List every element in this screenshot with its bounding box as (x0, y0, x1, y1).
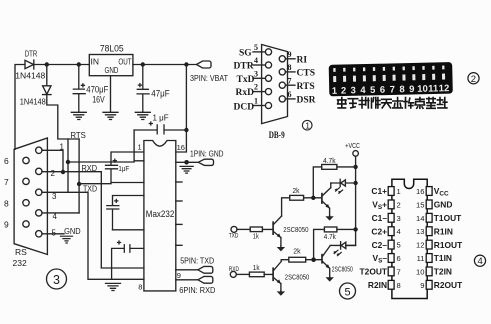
pin circle J1-8 (279, 69, 285, 75)
node C3 junction (184, 128, 188, 132)
svg-text:4.7k: 4.7k (324, 234, 336, 241)
ground arrow Q3 emitter (277, 291, 285, 296)
svg-text:16: 16 (177, 143, 185, 152)
wire VBAT rail (133, 64, 197, 66)
pin15 stub with ground (176, 161, 187, 163)
svg-text:7: 7 (4, 177, 9, 187)
svg-text:9: 9 (420, 281, 424, 290)
wire TXD row (79, 183, 111, 185)
svg-text:6: 6 (4, 156, 9, 166)
contact row upper (333, 68, 335, 72)
ground for DB9 pin5 (61, 236, 73, 243)
svg-text:RS: RS (15, 247, 27, 257)
svg-text:2: 2 (51, 169, 56, 178)
wire J1 pin5 stub (253, 51, 265, 53)
svg-text:6: 6 (380, 85, 386, 96)
wire drop to TXD row (78, 139, 80, 213)
pin circle J1-4 (265, 62, 271, 68)
wire pin4 row (42, 212, 79, 214)
svg-text:3: 3 (52, 192, 57, 201)
svg-text:R2IN: R2IN (368, 280, 387, 290)
svg-text:DTR: DTR (25, 49, 38, 58)
svg-text:78L05: 78L05 (100, 44, 124, 54)
wire pin4 loop C2 top (113, 196, 144, 206)
svg-text:T1OUT: T1OUT (434, 213, 462, 223)
svg-text:2SC8050: 2SC8050 (285, 272, 310, 281)
svg-text:4.7k: 4.7k (323, 158, 336, 165)
capacitor C5 470uF (73, 65, 85, 112)
svg-text:1k: 1k (253, 234, 259, 241)
node A 4.7k junction (353, 165, 357, 169)
svg-text:9: 9 (288, 50, 292, 59)
svg-text:8: 8 (138, 282, 142, 291)
circled number 4 (474, 255, 485, 267)
svg-text:5: 5 (254, 43, 258, 52)
pin circle J3-6 (23, 157, 29, 163)
pin circle J1-2 (265, 89, 271, 95)
circled number 3 (47, 269, 67, 289)
svg-text:7: 7 (288, 76, 292, 85)
wire pin9 row 6PIN RXD (176, 279, 198, 281)
pin boxes right 16-9 (426, 187, 432, 290)
connector tag 1PIN GND (187, 159, 214, 165)
node D base junction (311, 257, 316, 262)
svg-text:1: 1 (397, 187, 401, 196)
pin13 stub (176, 200, 182, 202)
svg-text:3: 3 (53, 273, 60, 287)
svg-text:2: 2 (471, 74, 476, 85)
diode D1 1N4148 (25, 60, 34, 69)
svg-text:1 μF: 1 μF (153, 114, 169, 123)
pin circle J3-7 (23, 178, 29, 184)
ground for 470uF (71, 112, 86, 119)
pin circle J3-4 (36, 210, 42, 216)
wire J1 pin7 stub (285, 84, 295, 86)
svg-text:2: 2 (397, 200, 401, 209)
node RXD junction (66, 160, 70, 164)
LED D4 (330, 242, 355, 256)
pin11 stub (176, 244, 182, 246)
diode D2 1N4148 vertical (43, 86, 51, 95)
resistor R6 2k (281, 257, 311, 262)
svg-text:9: 9 (4, 220, 9, 230)
LED D3 (331, 179, 356, 193)
svg-text:TxD: TxD (237, 75, 255, 85)
pin boxes left 1-8 (388, 187, 394, 290)
wire J1 pin9 stub (285, 58, 295, 60)
pin circle J3-2 (36, 168, 42, 174)
svg-text:+VCC: +VCC (345, 141, 360, 150)
connector tag 3PIN VBAT (197, 61, 212, 68)
wire J1 pin1 stub (253, 105, 265, 107)
svg-text:6: 6 (288, 90, 292, 99)
svg-text:1N4148: 1N4148 (15, 71, 45, 81)
svg-text:232: 232 (13, 258, 27, 268)
wire pin1 loop C1 top (111, 152, 144, 165)
svg-text:T1IN: T1IN (434, 253, 452, 263)
photo serial connector item 2 (329, 62, 453, 97)
svg-text:CTS: CTS (297, 69, 315, 79)
svg-text:5: 5 (345, 286, 351, 298)
capacitor C4 (112, 241, 144, 279)
svg-text:IN: IN (91, 57, 100, 67)
pin circle J3-1 (36, 147, 42, 153)
ground arrow Q2 emitter (325, 216, 333, 221)
terminal VCC circle (353, 151, 359, 157)
svg-text:DCD: DCD (234, 102, 255, 112)
connector J3 DB9 female RS232 body (14, 138, 47, 255)
wire J1 pin3 stub (253, 77, 265, 79)
node VCC-4.7k2 junction (353, 227, 357, 231)
pin circle J1-1 (265, 102, 271, 108)
transistor Q1 (262, 216, 281, 246)
circled number 5 (340, 283, 356, 299)
svg-text:8: 8 (397, 281, 401, 290)
svg-text:C2–: C2– (372, 240, 388, 250)
wire pin2 row to v5 (42, 172, 144, 268)
svg-text:SG: SG (239, 48, 252, 58)
pin labels right (434, 186, 463, 290)
svg-text:RxD: RxD (236, 88, 255, 98)
node pin15 junction (184, 160, 189, 165)
svg-text:VS+: VS+ (372, 200, 387, 211)
wire C2 bottom to pin5 (113, 229, 144, 231)
wire 78L05 GND pin (110, 76, 112, 112)
svg-text:9: 9 (409, 84, 415, 95)
node TXD junction (77, 182, 81, 186)
svg-text:DTR: DTR (234, 62, 254, 72)
svg-text:15: 15 (416, 200, 424, 209)
node pin1-pin2row junction (61, 170, 65, 174)
wire RXD row (68, 161, 134, 163)
svg-text:13: 13 (416, 227, 424, 236)
svg-text:GND: GND (105, 65, 119, 75)
wire C1 bottom to pin3 (111, 182, 144, 184)
svg-text:DB-9: DB-9 (269, 131, 285, 141)
svg-text:1: 1 (254, 97, 258, 106)
svg-text:5PIN: TXD: 5PIN: TXD (180, 256, 214, 265)
ground for 47uF (135, 112, 150, 119)
pin numbers 1-12 (332, 83, 450, 97)
ground arrow Q1 emitter (277, 246, 285, 252)
svg-text:10: 10 (416, 267, 424, 276)
svg-text:1: 1 (332, 86, 338, 97)
circled number 1 (302, 120, 312, 130)
wire VBAT drop to pin16 (176, 65, 187, 153)
svg-text:6: 6 (397, 254, 401, 263)
svg-text:VS–: VS– (372, 253, 387, 264)
wire J1 pin6 stub (285, 98, 295, 100)
capacitor C2 (107, 199, 119, 229)
svg-text:5: 5 (370, 85, 376, 96)
svg-text:5: 5 (52, 229, 57, 238)
svg-text:16V: 16V (92, 94, 105, 104)
pin labels left (360, 186, 388, 290)
ground arrow Q4 emitter (326, 277, 334, 282)
svg-text:1: 1 (305, 120, 310, 130)
wire RTS drop to RXD row (67, 139, 69, 192)
wire pin10 row 5PIN TXD (176, 269, 198, 271)
svg-text:GND: GND (64, 227, 81, 236)
svg-text:DSR: DSR (297, 96, 316, 106)
svg-text:RI: RI (297, 56, 308, 66)
svg-text:16: 16 (416, 187, 424, 196)
svg-text:3PIN: VBAT: 3PIN: VBAT (190, 74, 228, 83)
svg-text:T2OUT: T2OUT (360, 267, 388, 277)
wire J1 pin4 stub (253, 64, 265, 66)
terminal TXD circle (231, 226, 237, 232)
svg-text:8: 8 (4, 198, 9, 208)
svg-text:RXD: RXD (82, 164, 98, 173)
svg-text:3: 3 (350, 85, 356, 96)
wire DTR rail top-left (15, 65, 89, 150)
svg-text:4: 4 (254, 56, 258, 65)
svg-text:C1–: C1– (372, 213, 388, 223)
svg-text:3: 3 (397, 214, 401, 223)
pin circle J3-8 (23, 200, 29, 206)
node 470uF junction (77, 62, 81, 66)
ground for pin15 (180, 166, 193, 173)
svg-text:470μF: 470μF (86, 85, 108, 95)
svg-text:TXD: TXD (229, 233, 239, 240)
svg-text:1: 1 (138, 143, 142, 152)
svg-text:1PIN: GND: 1PIN: GND (190, 150, 224, 159)
svg-text:1N4148: 1N4148 (20, 96, 46, 106)
transistor Q4 (314, 246, 331, 277)
svg-text:7: 7 (390, 84, 396, 95)
wire C3 to pin2 (134, 130, 144, 161)
ground for 78L05 (103, 112, 118, 119)
svg-text:C2+: C2+ (371, 226, 387, 236)
pin circle J3-5 (36, 231, 42, 237)
svg-text:RTS: RTS (71, 130, 87, 140)
IC U3 DIP-16 body (392, 179, 427, 298)
circled number 2 (468, 73, 479, 85)
svg-text:OUT: OUT (118, 56, 131, 66)
IC U1 Max232 body (144, 141, 176, 291)
transistor Q2 (313, 183, 331, 216)
node 47uF junction (141, 62, 145, 66)
svg-text:4: 4 (397, 227, 401, 236)
svg-text:47μF: 47μF (151, 89, 170, 99)
svg-text:8: 8 (399, 84, 405, 95)
caption hanzi row (drawn strokes) (338, 98, 447, 109)
svg-text:RXD: RXD (229, 266, 239, 273)
svg-text:3: 3 (254, 69, 258, 78)
pin numbers left (397, 187, 401, 290)
svg-text:1μF: 1μF (118, 164, 129, 173)
pin12 stub (176, 223, 182, 225)
svg-text:Max232: Max232 (146, 209, 175, 220)
svg-text:12: 12 (439, 83, 450, 94)
svg-text:10: 10 (417, 84, 428, 95)
svg-text:T2IN: T2IN (434, 267, 452, 277)
svg-text:14: 14 (416, 214, 424, 223)
pin circle J1-3 (265, 75, 271, 81)
svg-text:R1IN: R1IN (434, 226, 453, 236)
resistor R2 4.7k (313, 165, 355, 196)
pin circle J1-9 (279, 56, 285, 62)
connector tag 6PIN RXD (198, 276, 213, 283)
svg-text:RTS: RTS (297, 82, 315, 92)
pin circle J1-5 (265, 49, 271, 55)
svg-text:VCC: VCC (434, 186, 449, 197)
wire D2 branch (47, 65, 79, 140)
pin circle J1-7 (279, 82, 285, 88)
resistor R1 1k (237, 227, 262, 232)
capacitor C6 47uF (137, 65, 149, 112)
svg-text:2SC8050: 2SC8050 (332, 264, 353, 273)
svg-text:2k: 2k (293, 188, 300, 195)
connector tag 5PIN TXD (198, 266, 213, 273)
connector J1 DB-9 diagram body (262, 45, 288, 124)
node VBAT-pin16 junction (184, 62, 188, 66)
resistor R4 1k (236, 272, 264, 277)
svg-text:2: 2 (254, 83, 258, 92)
svg-text:2: 2 (341, 85, 347, 96)
terminal RXD circle (230, 271, 236, 277)
pin circle J1-6 (279, 96, 285, 102)
svg-text:R2OUT: R2OUT (434, 280, 463, 290)
svg-text:2SC8050: 2SC8050 (283, 225, 308, 234)
svg-text:4: 4 (360, 85, 366, 96)
regulator U2 78L05 (89, 55, 133, 76)
svg-text:11: 11 (428, 83, 439, 94)
svg-text:C1+: C1+ (371, 186, 387, 196)
ground bottom middle (106, 283, 121, 290)
pin numbers right (416, 187, 424, 290)
node C base junction (311, 196, 315, 200)
svg-text:8: 8 (288, 63, 292, 72)
svg-text:4: 4 (478, 256, 483, 267)
svg-text:GND: GND (434, 200, 453, 210)
connector photo body (329, 62, 453, 96)
wire pin1 stub (42, 150, 63, 172)
resistor R3 2k (282, 195, 312, 216)
wire J1 pin8 stub (285, 71, 295, 73)
pin circle J3-3 (36, 189, 42, 195)
svg-text:9: 9 (177, 271, 181, 280)
caption text 电子制作天地收藏整理 (drawn strokes) (338, 98, 346, 108)
capacitor C3 1uF top (134, 122, 186, 134)
svg-text:1k: 1k (253, 265, 260, 272)
wire pin5 stub (42, 233, 64, 235)
resistor R5 4.7k (314, 227, 356, 258)
svg-text:2k: 2k (293, 249, 301, 256)
svg-text:R1OUT: R1OUT (434, 240, 463, 250)
capacitor C1 1uF (106, 159, 118, 182)
node rail-D2 junction (45, 62, 49, 66)
wire J1 pin2 stub (253, 91, 265, 93)
transistor Q3 (264, 262, 281, 291)
node B LED1 junction (353, 181, 357, 185)
wire VCC rail (346, 156, 356, 245)
svg-text:11: 11 (417, 254, 425, 263)
wire pin3 row down to bottom (42, 192, 144, 279)
pin14 stub (176, 181, 182, 183)
svg-text:5: 5 (397, 241, 401, 250)
svg-text:7: 7 (397, 267, 401, 276)
svg-text:12: 12 (416, 241, 424, 250)
pin circle J3-9 (23, 221, 29, 227)
contact row lower (333, 76, 336, 82)
svg-text:6PIN: RXD: 6PIN: RXD (179, 286, 215, 295)
